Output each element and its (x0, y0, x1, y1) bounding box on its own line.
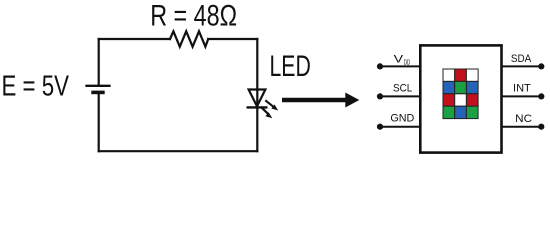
svg-text:E = 5V: E = 5V (2, 70, 70, 102)
svg-text:SCL: SCL (393, 83, 412, 95)
svg-text:DD: DD (404, 60, 411, 67)
svg-text:NC: NC (515, 113, 532, 125)
svg-text:GND: GND (390, 113, 414, 125)
svg-text:SDA: SDA (511, 53, 532, 65)
svg-text:INT: INT (513, 83, 531, 95)
svg-text:LED: LED (270, 50, 311, 83)
svg-text:R = 48Ω: R = 48Ω (150, 0, 237, 32)
svg-text:V: V (394, 53, 404, 65)
